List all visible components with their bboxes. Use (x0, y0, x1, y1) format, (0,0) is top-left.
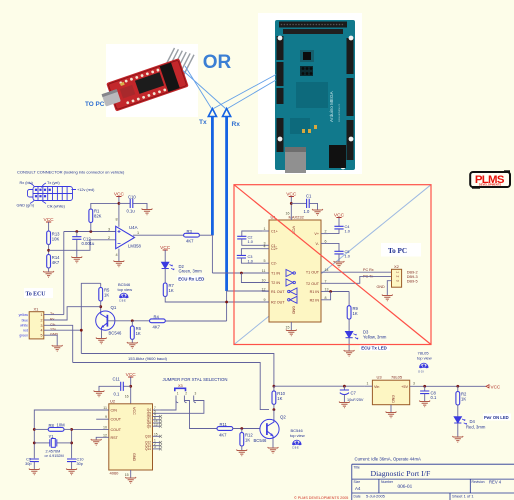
wire to R9 (348, 292, 350, 306)
svg-text:DB9-5: DB9-5 (407, 279, 418, 283)
capacitor C7 (343, 386, 345, 390)
svg-text:BC546: BC546 (109, 331, 122, 336)
wire +12V rail left (81, 283, 100, 353)
wire clock long (B) (73, 363, 269, 410)
LED D3 yellow (346, 332, 359, 340)
svg-text:Tx: Tx (199, 119, 207, 126)
svg-text:Q14: Q14 (145, 447, 151, 451)
svg-text:© PLMS DEVELOPMENTS 2005: © PLMS DEVELOPMENTS 2005 (294, 496, 348, 500)
DB9 gnd (387, 281, 391, 296)
ground right of C1 (312, 209, 323, 215)
leader lines from boards to Tx/Rx arrows (185, 66, 212, 109)
svg-text:GND: GND (132, 453, 136, 462)
svg-text:T1 IN: T1 IN (271, 272, 280, 276)
svg-text:15: 15 (125, 473, 129, 477)
svg-text:R11: R11 (220, 422, 228, 427)
svg-text:11: 11 (262, 269, 266, 273)
svg-text:C B E: C B E (292, 446, 299, 450)
ground left of C11 (94, 391, 105, 397)
svg-text:4K7: 4K7 (186, 239, 194, 244)
svg-text:6: 6 (325, 239, 327, 243)
svg-text:Sheet 1 of 1: Sheet 1 of 1 (452, 494, 474, 499)
svg-text:5: 5 (41, 334, 43, 338)
label Pwr ON LED (483, 414, 511, 421)
svg-text:C7: C7 (351, 391, 357, 396)
jumper wires (161, 401, 177, 411)
ground below C8 (419, 401, 430, 407)
wire +12V long (A) (81, 354, 274, 387)
crystal Y1 (34, 442, 50, 444)
wire T1OUT to DB9 (328, 271, 392, 273)
svg-text:Vin: Vin (374, 385, 379, 389)
svg-text:COUT: COUT (111, 428, 122, 432)
svg-text:red: red (23, 329, 28, 333)
crystal network (34, 410, 109, 458)
ground below Q2 (268, 447, 279, 453)
svg-text:1.0: 1.0 (345, 253, 351, 258)
svg-text:Red, 3mm: Red, 3mm (466, 424, 486, 429)
svg-text:15: 15 (154, 433, 158, 437)
node Rx/R2OUT/R7 (225, 301, 228, 304)
VCC above R13 (44, 217, 55, 223)
svg-text:REV 4: REV 4 (489, 480, 502, 485)
svg-text:14: 14 (325, 268, 329, 272)
wire Tx continuation (211, 235, 213, 273)
svg-text:ECU Rx LED: ECU Rx LED (178, 277, 204, 282)
ground below Q1 (96, 338, 107, 344)
svg-text:PC Rx: PC Rx (363, 268, 374, 272)
svg-text:2: 2 (185, 392, 187, 396)
resistor R1 82K (89, 230, 92, 233)
svg-text:X1: X1 (34, 306, 40, 311)
transistor Q2 BC546 (273, 410, 275, 420)
svg-text:JUMPER FOR XTAL SELECTION: JUMPER FOR XTAL SELECTION (163, 377, 228, 382)
wire +in rail (64, 231, 116, 233)
svg-text:153.8khz (9600 baud): 153.8khz (9600 baud) (128, 356, 168, 361)
svg-text:V+: V+ (314, 232, 319, 236)
svg-text:top view: top view (290, 433, 305, 438)
svg-text:Size: Size (354, 480, 361, 484)
svg-text:1.0: 1.0 (248, 258, 254, 263)
svg-text:0.001u: 0.001u (82, 241, 95, 246)
resistor R12 (241, 429, 243, 433)
svg-text:U3: U3 (377, 375, 383, 380)
svg-text:Pwr ON LED: Pwr ON LED (484, 415, 509, 420)
svg-text:3: 3 (108, 227, 110, 231)
wire Rx line to R1OUT (227, 290, 269, 292)
svg-text:C10: C10 (128, 195, 136, 200)
svg-text:8: 8 (325, 296, 327, 300)
capacitor C8 (424, 386, 426, 391)
svg-text:R2 IN: R2 IN (310, 298, 320, 302)
svg-text:1K: 1K (353, 311, 358, 316)
svg-text:Tx (yel): Tx (yel) (47, 181, 60, 185)
svg-text:3: 3 (413, 382, 415, 386)
svg-text:Rx: Rx (232, 121, 241, 128)
svg-text:www.arduino.cc: www.arduino.cc (337, 103, 341, 122)
svg-text:4: 4 (41, 329, 43, 333)
svg-text:U2: U2 (110, 398, 116, 403)
svg-text:4K7: 4K7 (153, 325, 161, 330)
svg-text:D4: D4 (470, 419, 476, 424)
opamp output wire + resistor R3 (133, 237, 136, 239)
svg-text:13: 13 (154, 422, 158, 426)
wire T2OUT jog to DB9 (328, 276, 392, 283)
svg-text:1: 1 (264, 227, 266, 231)
ground below R14 (43, 271, 54, 277)
svg-text:Y1: Y1 (49, 434, 55, 439)
resistor R9 (347, 306, 351, 320)
svg-text:COUT: COUT (111, 418, 122, 422)
svg-text:Clk: Clk (50, 323, 55, 327)
svg-text:R3: R3 (187, 229, 193, 234)
label ECU Tx LED (360, 344, 391, 351)
resistor R5 (100, 283, 102, 287)
svg-text:8: 8 (116, 218, 118, 222)
svg-text:GND: GND (391, 395, 395, 403)
svg-text:0.1: 0.1 (114, 392, 120, 397)
svg-text:2: 2 (325, 230, 327, 234)
svg-text:Tx: Tx (50, 312, 54, 316)
svg-text:R8: R8 (49, 423, 55, 428)
svg-text:7: 7 (325, 279, 327, 283)
svg-text:30p: 30p (25, 462, 31, 466)
ground below C10 (66, 469, 77, 475)
label ECU Rx LED (177, 275, 204, 281)
svg-text:BC546: BC546 (254, 438, 267, 443)
svg-text:1K: 1K (169, 288, 174, 293)
wire 12V to regulator (274, 385, 365, 387)
svg-text:2: 2 (396, 275, 400, 277)
ground below D4 (452, 436, 463, 442)
svg-text:16: 16 (286, 212, 290, 216)
svg-text:C10: C10 (77, 457, 84, 461)
svg-text:0.1u: 0.1u (127, 209, 136, 214)
svg-text:C1: C1 (306, 194, 312, 199)
svg-text:R1 IN: R1 IN (310, 290, 320, 294)
svg-text:X2: X2 (394, 264, 400, 269)
ground below U3 (386, 412, 397, 418)
IC U1 MAX232 (269, 220, 321, 322)
svg-text:1K: 1K (245, 438, 250, 443)
svg-text:yellow: yellow (19, 313, 29, 317)
svg-text:4K7: 4K7 (52, 260, 60, 265)
wire R1IN/R2IN tie (328, 291, 349, 293)
svg-text:Rx: Rx (50, 318, 55, 322)
svg-text:ECU Tx LED: ECU Tx LED (361, 346, 387, 351)
LED D2 green (162, 262, 175, 270)
svg-text:+5V: +5V (401, 385, 408, 389)
svg-text:+12v (red): +12v (red) (77, 188, 95, 192)
svg-text:To ECU: To ECU (26, 292, 47, 298)
FTDI USB-serial adapter photo (99, 44, 198, 117)
svg-text:GND (grn): GND (grn) (17, 204, 35, 208)
svg-text:Diagnostic Port I/F: Diagnostic Port I/F (371, 469, 431, 478)
resistor R4 (150, 319, 166, 323)
svg-text:top view: top view (417, 355, 432, 360)
svg-text:CIN: CIN (111, 409, 118, 413)
PLMS Developments logo (470, 170, 510, 188)
svg-text:RST: RST (111, 436, 119, 440)
svg-text:10M: 10M (57, 422, 66, 427)
svg-text:R4: R4 (154, 314, 160, 319)
red crossing box (234, 185, 431, 345)
MAX232 internal buffers (286, 270, 297, 304)
svg-text:O G I: O G I (418, 370, 424, 374)
VCC pin16 + capacitor C1 (286, 191, 297, 197)
ground below D3 (344, 350, 355, 356)
svg-text:VCC: VCC (491, 384, 501, 389)
wire divider to opamp -in (49, 240, 116, 251)
svg-text:11: 11 (103, 406, 107, 410)
svg-text:16: 16 (125, 395, 129, 399)
svg-text:3: 3 (154, 445, 156, 449)
svg-text:78L05: 78L05 (391, 375, 403, 380)
svg-text:1K: 1K (277, 396, 282, 401)
svg-text:C2-: C2- (271, 262, 278, 266)
svg-text:1K: 1K (104, 293, 109, 298)
VCC above D2 (160, 245, 171, 251)
svg-text:C1+: C1+ (271, 230, 278, 234)
ground right of C10 (142, 209, 153, 215)
svg-text:R1 OUT: R1 OUT (271, 290, 285, 294)
ground below C12 (71, 257, 82, 263)
svg-text:5-Jul-2005: 5-Jul-2005 (366, 494, 386, 499)
connector X2 DB9 (392, 269, 402, 287)
svg-text:Q1: Q1 (111, 305, 117, 310)
resistor R11 (217, 427, 233, 431)
svg-text:Q10: Q10 (145, 435, 151, 439)
svg-text:3: 3 (41, 324, 43, 328)
svg-text:white: white (20, 324, 28, 328)
svg-text:0.1: 0.1 (431, 395, 437, 400)
svg-text:1: 1 (177, 392, 179, 396)
svg-text:1: 1 (137, 231, 139, 235)
svg-text:3: 3 (396, 280, 400, 282)
svg-text:T2 IN: T2 IN (271, 281, 280, 285)
svg-text:30p: 30p (77, 462, 83, 466)
svg-text:blue: blue (22, 318, 29, 322)
svg-text:1K: 1K (461, 397, 466, 402)
svg-text:13: 13 (325, 288, 329, 292)
svg-text:82K: 82K (94, 214, 102, 219)
node Q1 collector (99, 305, 102, 308)
svg-text:3: 3 (195, 392, 197, 396)
label To ECU (24, 288, 53, 298)
title block (352, 464, 514, 500)
IC U2 4060 (109, 404, 153, 470)
blue diagonal (under ICs) (234, 185, 431, 345)
node divider (47, 249, 50, 252)
LED D4 red (454, 417, 467, 425)
ground below C9 (29, 469, 40, 475)
svg-text:4: 4 (264, 245, 266, 249)
svg-text:T2 OUT: T2 OUT (306, 282, 320, 286)
ground below C7 (339, 402, 350, 408)
svg-text:X3: X3 (178, 384, 183, 388)
svg-text:Revision: Revision (472, 480, 485, 484)
svg-text:green: green (19, 334, 28, 338)
ground below R12 (236, 450, 247, 456)
+5V rail (410, 385, 486, 387)
svg-text:C11: C11 (113, 377, 121, 382)
svg-text:Green, 3mm: Green, 3mm (179, 269, 203, 274)
label To PC (381, 243, 421, 257)
U2 pin15 gnd (130, 470, 132, 478)
svg-text:Q2: Q2 (280, 415, 286, 420)
capacitor C12 (75, 230, 78, 233)
ground at RST (91, 439, 102, 445)
resistor R10 (272, 391, 276, 405)
svg-text:Q9: Q9 (147, 424, 151, 428)
svg-text:GND: GND (377, 285, 386, 289)
svg-text:12: 12 (262, 287, 266, 291)
Q1 base wire (107, 320, 149, 322)
capacitor C10 (119, 202, 130, 204)
capacitor C11 + VCC for U2 (126, 372, 137, 378)
svg-text:1.0: 1.0 (345, 228, 351, 233)
svg-text:GND: GND (292, 306, 296, 315)
svg-text:Arduino MEGA: Arduino MEGA (329, 90, 334, 122)
svg-text:4: 4 (116, 253, 118, 257)
svg-text:U4A: U4A (129, 225, 138, 230)
svg-text:15: 15 (286, 326, 290, 330)
svg-text:Clk (white): Clk (white) (47, 205, 66, 209)
svg-text:LM358: LM358 (128, 244, 141, 249)
capacitor C9 (30, 459, 39, 462)
svg-text:4060: 4060 (110, 471, 120, 476)
ground X1 pin5 (52, 345, 63, 351)
svg-text:10K: 10K (52, 237, 60, 242)
VCC + capacitor C4 (V+) (334, 212, 345, 218)
svg-text:Number: Number (381, 480, 394, 484)
svg-text:10: 10 (262, 279, 266, 283)
svg-text:1: 1 (396, 271, 400, 273)
ground below opamp (114, 261, 125, 267)
svg-text:9: 9 (264, 298, 266, 302)
svg-text:2: 2 (108, 236, 110, 240)
resistor R13 (47, 231, 51, 245)
resistor R2 (457, 386, 459, 391)
svg-text:or 4.9152M: or 4.9152M (45, 454, 64, 458)
svg-text:top view: top view (118, 287, 133, 292)
resistor R7 (163, 283, 167, 297)
svg-text:1: 1 (367, 382, 369, 386)
svg-text:9: 9 (105, 415, 107, 419)
Tx arrow and line (208, 109, 216, 117)
VCC at opamp (114, 191, 125, 197)
capacitor C10b (67, 459, 76, 462)
wire to X1 pin1 (63, 232, 65, 315)
capacitor C3 (241, 249, 262, 256)
svg-text:CONSULT CONNECTOR (looking in: CONSULT CONNECTOR (looking into connecto… (17, 170, 125, 175)
op-amp U4A LM358 (116, 226, 135, 248)
GND pin15 (290, 322, 292, 331)
ground below C5 (334, 261, 345, 267)
svg-text:C2+: C2+ (271, 247, 278, 251)
resistor R8 (48, 428, 64, 432)
svg-text:006-01: 006-01 (398, 484, 413, 490)
svg-text:DEVELOPMENTS: DEVELOPMENTS (479, 183, 501, 187)
resistor R6 (131, 321, 133, 326)
svg-text:VCC: VCC (132, 407, 136, 415)
wire X1 pin2 to collector (44, 307, 101, 320)
resistor R14 (47, 255, 51, 269)
Rx arrow and line (223, 109, 231, 117)
svg-text:4K7: 4K7 (219, 432, 227, 437)
svg-text:To PC: To PC (388, 247, 407, 255)
svg-text:12v: 12v (50, 328, 56, 332)
capacitor C2 (242, 231, 262, 236)
transistor Q1 BC546 (96, 311, 115, 330)
svg-text:T1 OUT: T1 OUT (306, 271, 320, 275)
svg-text:12: 12 (103, 433, 107, 437)
regulator U3 78L05 (372, 380, 409, 405)
svg-text:R2 OUT: R2 OUT (271, 301, 285, 305)
svg-text:Date: Date (354, 495, 361, 499)
svg-text:Yellow, 3mm: Yellow, 3mm (363, 335, 387, 340)
svg-text:1: 1 (41, 313, 43, 317)
wire Rx down to R4 (165, 320, 227, 322)
svg-text:C9: C9 (26, 457, 31, 461)
ground below X2 (382, 295, 393, 301)
svg-text:10: 10 (103, 425, 107, 429)
svg-text:Title: Title (354, 466, 360, 470)
svg-text:Rx (blu): Rx (blu) (20, 181, 34, 185)
svg-text:A4: A4 (355, 486, 361, 491)
svg-text:Current: Idle 36mA, Operate 44: Current: Idle 36mA, Operate 44mA (355, 457, 422, 462)
capacitor C5 (V-) (328, 243, 339, 251)
svg-text:C B E: C B E (119, 299, 126, 303)
svg-text:1K: 1K (136, 331, 141, 336)
ground below R6 (127, 342, 138, 348)
Arduino Mega photo (258, 13, 362, 174)
svg-text:TO PC: TO PC (85, 101, 105, 108)
wire Tx line to T1IN/T2IN (212, 272, 269, 274)
svg-text:2: 2 (41, 319, 43, 323)
X1 wires (48, 314, 64, 316)
svg-text:10uF/25V: 10uF/25V (347, 398, 364, 402)
svg-text:OR: OR (203, 52, 232, 73)
svg-text:5: 5 (264, 259, 266, 263)
svg-text:1.0: 1.0 (304, 209, 310, 214)
svg-text:1.0: 1.0 (248, 239, 254, 244)
connector X1 (29, 312, 44, 339)
